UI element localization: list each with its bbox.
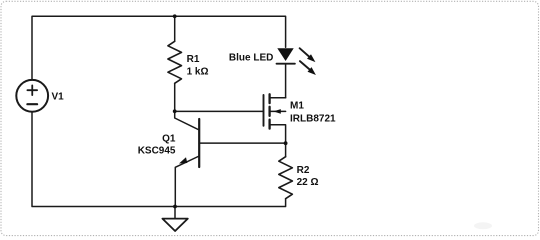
svg-text:Q1: Q1 xyxy=(162,134,176,145)
svg-text:KSC945: KSC945 xyxy=(138,146,176,157)
svg-text:V1: V1 xyxy=(52,92,65,103)
svg-text:R1: R1 xyxy=(187,54,200,65)
svg-text:IRLB8721: IRLB8721 xyxy=(290,113,336,124)
svg-text:M1: M1 xyxy=(290,101,304,112)
svg-text:1 kΩ: 1 kΩ xyxy=(187,67,209,78)
svg-text:R2: R2 xyxy=(297,165,310,176)
svg-text:Blue LED: Blue LED xyxy=(229,53,273,64)
svg-text:22 Ω: 22 Ω xyxy=(297,177,319,188)
